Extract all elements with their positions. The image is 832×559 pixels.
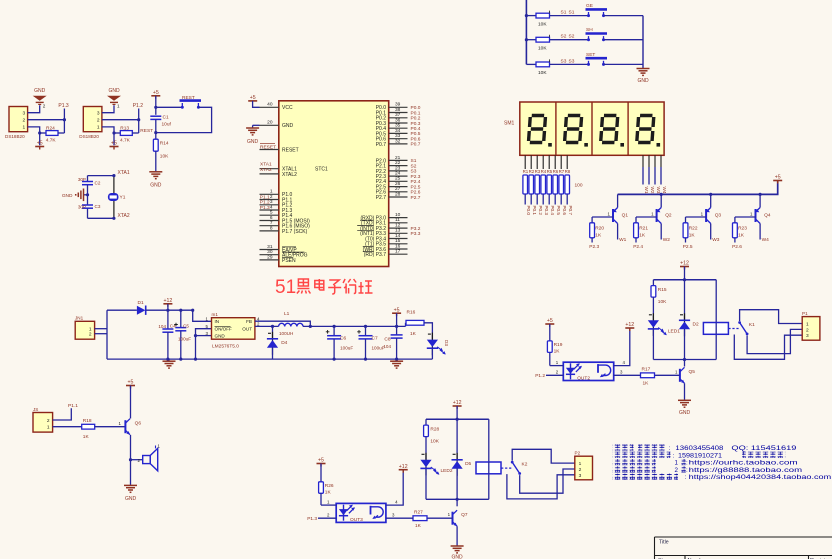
pin P1.0 (1) [260, 189, 279, 195]
svg-text:S2: S2 [561, 34, 567, 40]
wire resistor to net [635, 238, 637, 243]
speaker LS1 [143, 446, 158, 471]
pin ALE/PROG (30) [260, 249, 279, 255]
relay coil K2 [476, 462, 501, 474]
svg-text:S3: S3 [561, 58, 567, 64]
pin P1.5 (MOSI) (6) [260, 215, 279, 221]
text 'product shop taobao' (chinese) [613, 466, 656, 472]
junction [194, 334, 197, 337]
wire segment pin 3 [536, 155, 538, 169]
svg-text:2: 2 [97, 118, 100, 124]
title block frame [655, 537, 832, 559]
wire to resistor [114, 132, 120, 134]
resistor R15 [651, 286, 656, 298]
wire to R15 [652, 280, 654, 286]
pin P2.7 (28) [389, 191, 408, 197]
junction [660, 193, 663, 196]
text 'product shop taobao enterprise' (chinese) [613, 474, 679, 480]
svg-text:RESET: RESET [260, 144, 276, 150]
wire contact to P2 pin2 [520, 469, 575, 493]
MCU U1 (STC1) [279, 101, 389, 267]
pin GND (20) [260, 120, 279, 126]
pin name P2.1 [376, 164, 387, 170]
wire pin2 (DQ) [28, 119, 65, 121]
svg-text:W1: W1 [619, 237, 627, 243]
pin name P1.6 (MISO) [282, 224, 310, 230]
wire to P0 net [548, 194, 550, 205]
pin P0.3 (36) [389, 117, 408, 123]
junction [525, 14, 528, 17]
svg-text:1K: 1K [639, 232, 646, 238]
diode D4 [267, 332, 278, 355]
junction [525, 38, 528, 41]
wire through coil [715, 323, 717, 335]
junction [179, 358, 182, 361]
pin names 3 2 1 [23, 111, 26, 131]
wire C3 down [87, 208, 89, 218]
pin numbers 2 1 [47, 418, 50, 431]
wire resistor to button [550, 15, 589, 17]
junction [112, 174, 115, 177]
power +12 [453, 400, 462, 409]
svg-text:D4: D4 [281, 340, 287, 346]
svg-text:C1: C1 [163, 114, 169, 120]
pin P0.1 (38) [389, 107, 408, 113]
svg-text:+5: +5 [775, 175, 781, 181]
svg-text:11: 11 [395, 217, 400, 223]
digit 8. (cell 3) [599, 114, 620, 144]
svg-text:R22: R22 [689, 226, 698, 232]
svg-text:GND: GND [62, 193, 73, 199]
svg-text:P1.1: P1.1 [68, 403, 78, 409]
svg-text:15: 15 [395, 238, 401, 244]
svg-text:26: 26 [395, 181, 401, 187]
pin name P1.0 [282, 192, 293, 198]
pin name P0.3 [376, 121, 387, 127]
junction [333, 358, 336, 361]
wire to P0 net [554, 194, 556, 205]
svg-text:17: 17 [395, 249, 401, 255]
wire to D1 [107, 309, 137, 311]
svg-text:C7: C7 [372, 335, 378, 341]
pin P0.6 (33) [389, 133, 408, 139]
wire emitter Q5 [684, 383, 686, 400]
wire pin1 [550, 365, 564, 367]
svg-text::: : [686, 467, 688, 474]
wire resistor to net [58, 132, 64, 134]
relay link (dashed) [501, 467, 512, 469]
svg-text:2: 2 [806, 327, 809, 333]
wire common to P1 pin3 [734, 335, 802, 360]
pin P2.1 (22) [389, 160, 408, 166]
svg-text:GE: GE [586, 3, 593, 9]
resistor R8 [565, 175, 570, 194]
svg-text:Q6: Q6 [135, 421, 142, 427]
connector P2 [575, 456, 593, 480]
wire to RS2 [526, 39, 536, 41]
opto LED (inside OUT2) [566, 363, 582, 379]
wire pin1 to +5 [28, 127, 40, 145]
capacitor C1 [150, 116, 161, 119]
text '(wechat same number)' (chinese) [742, 452, 785, 458]
wire collector Q7 [456, 499, 458, 506]
pin name (RD) P3.7 [363, 252, 386, 259]
digit 8. (cell 2) [563, 114, 584, 144]
svg-text:P0.6: P0.6 [411, 137, 421, 143]
svg-text:+5: +5 [318, 458, 324, 464]
svg-text:2: 2 [43, 104, 46, 109]
svg-text:10K: 10K [160, 153, 169, 159]
capacitor C2 [82, 182, 93, 185]
wire button to gnd rail [604, 15, 644, 17]
pin names IN ON/OFF GND FB OUT [215, 319, 253, 338]
display cell divider [591, 102, 593, 155]
svg-text:3: 3 [806, 333, 809, 339]
capacitor C7 [359, 336, 373, 339]
transistor Q6 [125, 419, 130, 435]
svg-text:D2: D2 [693, 322, 699, 328]
wire +12 stem [456, 406, 458, 419]
svg-text:R14: R14 [160, 140, 169, 146]
pin name VCC [282, 105, 293, 111]
wire XTAL2 [88, 217, 114, 219]
pin (INT1) P3.3 (13) [389, 228, 408, 234]
svg-text:S3: S3 [411, 169, 417, 175]
svg-text:P0.7: P0.7 [568, 206, 573, 216]
svg-text:+5: +5 [111, 141, 117, 147]
resistor R24 [46, 131, 58, 136]
pin name (WR) P3.6 [363, 246, 387, 253]
svg-text:QQ: 115451619: QQ: 115451619 [731, 445, 797, 452]
wire resistor to button [550, 63, 589, 65]
wire button to gnd rail [604, 39, 644, 41]
svg-text:28: 28 [395, 191, 401, 197]
LED D3 [427, 333, 446, 356]
junction [166, 309, 169, 312]
resistor R28 [424, 425, 429, 437]
wire resistor to net [132, 132, 138, 134]
svg-text:3: 3 [23, 111, 26, 117]
svg-text:+5: +5 [547, 318, 553, 324]
resistor R23 [733, 223, 738, 238]
wire segment pin 2 [530, 155, 532, 169]
svg-text:8: 8 [270, 225, 273, 231]
svg-text:P2.5: P2.5 [411, 184, 421, 190]
svg-text:+5: +5 [394, 307, 400, 313]
pin (INT0) P3.2 (12) [389, 223, 408, 229]
svg-text:W1: W1 [644, 187, 649, 194]
opto transistor (inside OUT3) [371, 506, 384, 519]
wire pin3 to GND [102, 105, 114, 112]
resistor R21 [634, 223, 639, 238]
svg-text:P2.7: P2.7 [376, 195, 387, 201]
pin P0.5 (34) [389, 128, 408, 134]
wire base Q1 [592, 216, 613, 218]
svg-text:D1: D1 [138, 300, 144, 306]
power +5 [545, 318, 554, 327]
wire to P0 net [542, 194, 544, 205]
ground (sensor VDD-GND sym) [33, 96, 47, 105]
pin RESET [260, 149, 279, 151]
wire to RS3 [526, 63, 536, 65]
svg-text:4.7K: 4.7K [120, 138, 131, 144]
svg-text:1: 1 [97, 125, 100, 131]
svg-text::: : [673, 452, 675, 459]
svg-text:C8: C8 [384, 337, 390, 343]
svg-text:100UH: 100UH [279, 331, 293, 336]
wire to base resistor [591, 217, 593, 223]
svg-text:2: 2 [47, 418, 50, 424]
wire top rail [653, 279, 716, 281]
pin PSEN (29) [260, 254, 279, 260]
junction [333, 325, 336, 328]
wire jog R16 [405, 323, 407, 327]
pin name P0.0 [376, 105, 387, 111]
relay switch K1 [738, 321, 748, 335]
svg-text:XTA1: XTA1 [260, 161, 272, 167]
wire to C5 [180, 310, 182, 327]
svg-text:P2.3: P2.3 [411, 174, 421, 180]
wire collector Q4 [759, 224, 761, 240]
pin EA/VP (31) [260, 244, 279, 250]
pin name P0.5 [376, 131, 387, 137]
svg-text:30P: 30P [78, 204, 86, 209]
svg-text:P0.1: P0.1 [411, 110, 421, 116]
wire pin1 to +5 [102, 127, 114, 145]
svg-text:Title: Title [659, 540, 669, 546]
resistor R18 [82, 424, 95, 429]
power +12 [625, 322, 634, 331]
wire collector Q3 [710, 224, 712, 240]
svg-text:C3: C3 [95, 204, 101, 209]
pin names 3 2 1 [97, 111, 100, 131]
junction [154, 131, 157, 134]
svg-text:LED1: LED1 [668, 328, 680, 334]
wire coil branch [715, 280, 717, 360]
svg-text:P2.6: P2.6 [732, 244, 742, 250]
wire through coil [488, 462, 490, 474]
svg-text:1K: 1K [643, 380, 650, 386]
pin numbers 1 2 3 [579, 461, 582, 479]
pin P0.4 (35) [389, 123, 408, 129]
pin P0.0 (39) [389, 102, 408, 108]
wire gnd stem [252, 125, 254, 127]
svg-text:OUT: OUT [242, 327, 252, 332]
resistor R16 [406, 320, 424, 325]
svg-text:C5: C5 [183, 324, 189, 329]
wire common to P2 pin3 [507, 474, 575, 499]
svg-text:10: 10 [395, 212, 401, 218]
wire R19 to pin1 [549, 353, 551, 366]
svg-text:P2.7: P2.7 [411, 195, 421, 201]
svg-text:GND: GND [637, 78, 649, 84]
ground [124, 485, 137, 492]
svg-text:GND: GND [679, 410, 691, 416]
pin name P2.7 [376, 195, 387, 201]
wire to R28 [425, 419, 427, 425]
svg-text:P0.0: P0.0 [411, 105, 421, 111]
pin name XTAL2 [282, 172, 297, 178]
svg-text:IN: IN [215, 319, 220, 324]
svg-text:R17: R17 [642, 367, 651, 373]
display cell divider [555, 102, 557, 155]
svg-text:P0.3: P0.3 [411, 121, 421, 127]
svg-text:1: 1 [117, 104, 120, 109]
svg-text:Q2: Q2 [665, 212, 672, 218]
ground [451, 546, 464, 553]
wire bottom rail [426, 498, 489, 500]
inductor L1 [279, 323, 303, 326]
connector P1 [802, 317, 820, 341]
sensor DS18B20 U2 [9, 107, 28, 132]
pin name GND [282, 123, 294, 129]
relay link (dashed) [728, 328, 739, 330]
transistor Q2 [657, 208, 662, 224]
wire collector Q5 [684, 360, 686, 367]
pin name P2.4 [376, 179, 387, 185]
svg-text:R21: R21 [639, 226, 648, 232]
svg-text:Q4: Q4 [764, 212, 771, 218]
wire LED down [652, 330, 654, 360]
pin P2.4 (25) [389, 176, 408, 182]
svg-text:16: 16 [395, 243, 401, 249]
digit 8. (cell 1) [527, 114, 548, 144]
wire digit pin 3 [654, 155, 656, 167]
wire ON/OFF to gnd [196, 329, 212, 359]
wire resistor to net [685, 238, 687, 243]
wire gnd rail (buttons) [642, 16, 644, 68]
svg-text:39: 39 [395, 102, 401, 108]
pin (RD) P3.7 (17) [389, 249, 408, 255]
svg-text:R24: R24 [46, 125, 55, 131]
wire GND pin [196, 335, 212, 337]
svg-text::: : [669, 445, 671, 452]
pin P2.5 (26) [389, 181, 408, 187]
svg-text:P3.3: P3.3 [411, 231, 421, 237]
pin name P1.7 (SCK) [282, 229, 308, 235]
pin name P2.2 [376, 169, 387, 175]
svg-text:20: 20 [267, 120, 273, 126]
junction [309, 325, 312, 328]
pin (RXD) P3.0 (10) [389, 212, 408, 218]
wire to IN [193, 310, 212, 321]
svg-text:13603455408: 13603455408 [675, 445, 724, 452]
svg-text:DS18B20: DS18B20 [5, 134, 25, 139]
svg-text:+12: +12 [163, 298, 172, 304]
svg-text:10uf: 10uf [162, 121, 172, 127]
svg-text:SET: SET [586, 52, 595, 58]
pin XTAL1 [260, 168, 279, 170]
capacitor C8 [391, 335, 403, 338]
pin name P0.2 [376, 116, 387, 122]
pin numbers 1 2 [89, 327, 92, 338]
wire pin3 to R17 [614, 374, 641, 376]
junction [112, 217, 115, 220]
pin P2.2 (23) [389, 165, 408, 171]
optocoupler OUT3 [336, 503, 386, 522]
junction [137, 118, 140, 121]
svg-text:2: 2 [579, 467, 582, 473]
wire collector Q1 [617, 224, 619, 240]
pin name (T0) P3.4 [365, 236, 386, 242]
text 'dian' (chinese) [680, 466, 686, 472]
junction [179, 309, 182, 312]
wire pin2 to P1.1 [53, 408, 72, 420]
svg-text:10K: 10K [430, 439, 439, 445]
wire diode down [684, 330, 686, 360]
svg-text:27: 27 [395, 186, 401, 192]
pin name P2.3 [376, 174, 387, 180]
svg-text:LED2: LED2 [441, 468, 453, 474]
resistor R20 [590, 223, 595, 238]
svg-text:23: 23 [395, 165, 401, 171]
push button REST [180, 101, 202, 109]
svg-text:1K: 1K [738, 232, 745, 238]
resistor R5 [547, 175, 552, 194]
pin P1.3 (4) [260, 204, 279, 210]
svg-text:3: 3 [97, 111, 100, 117]
optocoupler OUT2 [563, 362, 613, 380]
wire +5 output rail [303, 325, 406, 327]
svg-text:10K: 10K [538, 45, 547, 51]
pin XTAL2 [260, 173, 279, 175]
wire input vertical [106, 310, 108, 359]
wire emitter Q2 [660, 194, 662, 207]
svg-text:XTA2: XTA2 [118, 213, 130, 219]
wire to P0 net [560, 194, 562, 205]
wire +5 rail (buttons) [525, 0, 527, 64]
wire cap to R14 [155, 119, 157, 139]
resistor R26 [319, 482, 324, 494]
svg-text:R23: R23 [738, 226, 747, 232]
svg-text:R18: R18 [83, 418, 92, 424]
wire to C7 [365, 326, 367, 335]
svg-text:3: 3 [270, 199, 273, 205]
svg-text:P0.7: P0.7 [376, 142, 387, 148]
display cell divider [627, 102, 629, 155]
svg-text:+12: +12 [625, 322, 634, 328]
wire coil branch [488, 419, 490, 499]
svg-text:S3: S3 [569, 58, 575, 64]
svg-text:R26: R26 [325, 483, 334, 489]
resistor R27 [413, 516, 427, 521]
svg-text:R19: R19 [554, 342, 563, 348]
resistor R22 [683, 223, 688, 238]
svg-text:+5: +5 [153, 90, 159, 96]
resistor R1 [523, 175, 528, 194]
svg-text:PSEN: PSEN [282, 258, 296, 264]
wire base [428, 517, 453, 519]
wire segment pin 4 [542, 155, 544, 169]
wire to D2 [684, 280, 686, 321]
wire resistor to button [550, 39, 589, 41]
svg-text:VCC: VCC [282, 105, 293, 111]
wire +5 rail (drivers) [618, 181, 778, 194]
svg-text:S2: S2 [411, 163, 417, 169]
svg-text:LM2576T5.0: LM2576T5.0 [212, 343, 239, 349]
transistor Q1 [613, 208, 618, 224]
junction [683, 358, 686, 361]
wire pin1 [321, 504, 336, 506]
svg-text:OUT2: OUT2 [577, 375, 590, 381]
svg-text:Q1: Q1 [622, 212, 629, 218]
wire crystal vertical [113, 176, 115, 219]
wire to C2 [87, 176, 89, 182]
svg-text:OUT3: OUT3 [350, 517, 363, 523]
junction [395, 325, 398, 328]
wire digit pin 4 [660, 155, 662, 167]
pin P2.0 (21) [389, 155, 408, 161]
